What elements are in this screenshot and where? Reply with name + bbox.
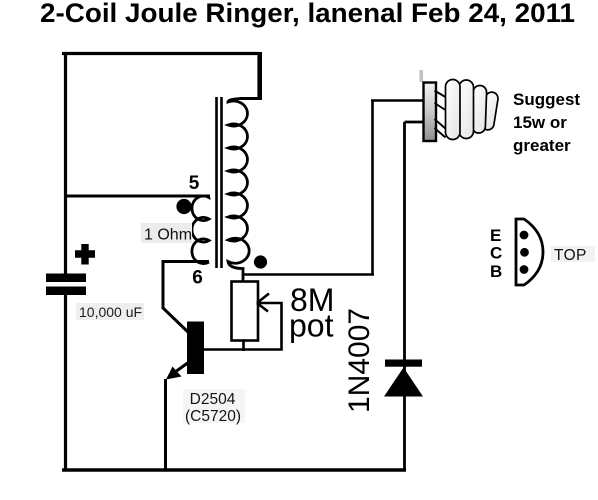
wire: jog to primary top bbox=[240, 97, 261, 100]
svg-text:6: 6 bbox=[192, 268, 203, 289]
svg-text:2-Coil Joule Ringer, lanenal F: 2-Coil Joule Ringer, lanenal Feb 24, 201… bbox=[40, 0, 575, 28]
label: Suggest 15w or greater bbox=[513, 90, 580, 155]
transformer T1 core bbox=[217, 97, 222, 268]
wire: top rail bbox=[62, 52, 259, 55]
junction dot: secondary pin 5 bbox=[176, 199, 191, 214]
potentiometer 8M body bbox=[232, 282, 259, 341]
wire: left rail lower bbox=[64, 295, 67, 470]
svg-text:15w or: 15w or bbox=[513, 113, 567, 132]
transformer primary winding bbox=[228, 99, 261, 282]
wire: secondary bottom to transistor collector bbox=[163, 262, 209, 334]
svg-text:1 Ohm: 1 Ohm bbox=[144, 227, 192, 244]
svg-text:10,000 uF: 10,000 uF bbox=[79, 304, 142, 320]
transformer secondary winding (1 Ohm) bbox=[192, 196, 210, 264]
svg-text:5: 5 bbox=[189, 173, 200, 194]
label: 1 Ohm bbox=[141, 223, 192, 244]
svg-text:1N4007: 1N4007 bbox=[343, 308, 376, 413]
diode D1 1N4007 bbox=[384, 360, 423, 397]
transistor Q1 emitter with arrow bbox=[173, 362, 189, 374]
svg-text:TOP: TOP bbox=[554, 247, 587, 264]
svg-text:E: E bbox=[490, 226, 501, 245]
svg-text:(C5720): (C5720) bbox=[185, 408, 241, 425]
lamp CFL base bbox=[420, 70, 437, 141]
wire: thick right drop to primary top bbox=[257, 52, 262, 100]
label: TOP bbox=[551, 246, 595, 264]
svg-text:B: B bbox=[490, 262, 502, 281]
wire: riser to lamp terminal 1 bbox=[371, 101, 424, 276]
lamp CFL tube connector filaments bbox=[435, 91, 448, 138]
potentiometer bottom terminal bbox=[242, 341, 245, 352]
svg-text:D2504: D2504 bbox=[190, 391, 236, 408]
wire: left rail upper bbox=[64, 52, 67, 275]
wire: bottom rail bbox=[62, 468, 406, 471]
capacitor polarity + bbox=[75, 244, 95, 265]
lamp CFL spiral tube bbox=[446, 80, 499, 140]
svg-text:pot: pot bbox=[289, 308, 334, 344]
wire: lamp terminal 2 to diode branch bbox=[405, 122, 425, 470]
junction dot: primary bottom node bbox=[254, 255, 267, 268]
svg-text:greater: greater bbox=[513, 136, 571, 155]
label: 10,000 uF bbox=[76, 303, 144, 320]
pinout pad dots bbox=[520, 231, 529, 240]
transistor Q1 base bar bbox=[187, 322, 204, 375]
capacitor 10,000 uF plates bbox=[46, 274, 86, 283]
wire: primary bottom to lamp feed bbox=[243, 273, 374, 276]
wire: secondary top to left rail bbox=[65, 195, 211, 198]
potentiometer wiper arrow and base wire bbox=[204, 294, 282, 350]
transistor pinout diagram body bbox=[516, 219, 543, 285]
label: D2504 (C5720) bbox=[183, 389, 245, 425]
svg-text:C: C bbox=[490, 244, 502, 263]
svg-text:Suggest: Suggest bbox=[513, 90, 580, 109]
wire: emitter to bottom rail bbox=[164, 379, 167, 470]
